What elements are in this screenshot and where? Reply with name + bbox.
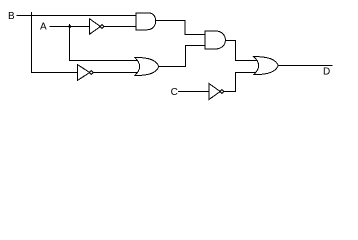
wire B horizontal to AND1 (17, 15, 137, 17)
junction A dot (68, 25, 71, 28)
inverter U1 triangle (89, 19, 100, 35)
inverter U6 bubble (220, 90, 224, 94)
wire OR1 output to AND2 (159, 46, 206, 67)
junction B branch (31, 12, 33, 73)
wire AND1 output (156, 21, 206, 35)
wire C to NOT3 (178, 91, 210, 93)
wire OR2 output to D (278, 65, 333, 67)
and-gate U2 (136, 13, 156, 30)
inverter U6 triangle (209, 84, 220, 100)
wire NOT3 output to OR2 (224, 73, 258, 92)
wire NOT2 output to OR1 (93, 72, 139, 74)
or-gate U7 (254, 57, 279, 75)
wire A branch horizontal to OR1 (69, 60, 139, 62)
wire NOT1 output to AND1 (104, 26, 137, 28)
inverter U3 triangle (78, 65, 90, 81)
svg-text:D: D (323, 67, 330, 78)
wire A horizontal to NOT1 (50, 26, 90, 28)
wire AND2 output to OR2 (225, 41, 258, 61)
svg-text:C: C (171, 87, 178, 98)
and-gate U5 (205, 31, 226, 49)
inverter U1 bubble (100, 25, 104, 29)
wire A branch vertical (69, 24, 71, 61)
wire B branch horizontal to NOT2 (31, 72, 78, 74)
svg-text:A: A (40, 22, 47, 33)
or-gate U4 (135, 57, 159, 75)
inverter U3 bubble (89, 71, 93, 75)
svg-text:B: B (8, 11, 15, 22)
